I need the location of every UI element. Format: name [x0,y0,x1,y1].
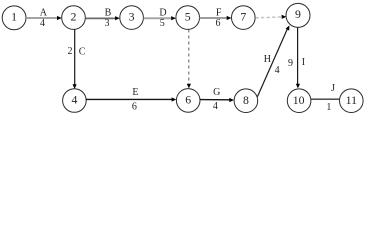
svg-text:8: 8 [243,93,249,107]
svg-text:9: 9 [295,7,301,21]
node 11 [340,89,364,113]
svg-text:2: 2 [71,9,77,23]
node 2 [62,6,86,30]
svg-text:7: 7 [240,9,246,23]
node 3 [120,6,144,30]
svg-text:4: 4 [275,65,280,76]
svg-text:G: G [213,87,220,98]
svg-text:6: 6 [216,18,221,29]
svg-text:F: F [216,8,222,19]
svg-text:11: 11 [346,93,357,107]
svg-text:E: E [132,87,138,98]
wire edge G: 6 to 8 [200,98,234,102]
wire edge F: 5 to 7 [200,16,232,20]
node 8 [234,89,258,113]
node 7 [232,6,256,30]
svg-text:6: 6 [132,101,137,112]
node 1 [2,6,26,30]
svg-text:4: 4 [40,18,45,29]
svg-text:3: 3 [129,9,135,23]
svg-text:6: 6 [185,93,191,107]
svg-text:J: J [331,83,335,94]
svg-text:9: 9 [288,58,293,69]
svg-text:10: 10 [293,93,305,107]
svg-text:D: D [159,8,166,19]
svg-text:A: A [40,8,48,19]
svg-text:I: I [302,57,305,68]
svg-text:4: 4 [213,101,218,112]
svg-text:5: 5 [160,18,165,29]
wire dummy edge: 7 to 9 dashed [255,15,286,19]
svg-text:H: H [264,54,271,65]
svg-text:1: 1 [11,10,17,24]
node 6 [176,89,200,113]
node 9 [286,3,310,27]
wire edge J: 10 to 11 [311,98,340,100]
svg-text:C: C [79,46,86,57]
node 10 [287,89,311,113]
svg-text:5: 5 [185,9,191,23]
node 4 [63,89,87,113]
wire edge H: 8 to 9 diagonal [257,25,289,96]
wire edge I: 9 to 10 vertical [296,28,300,89]
wire dummy edge: 5 to 6 dashed vertical [187,30,191,89]
svg-text:4: 4 [71,93,77,107]
wire edge A: 1 to 2 [26,16,62,20]
node 5 [176,6,200,30]
wire edge B: 2 to 3 [85,16,119,20]
wire edge D: 3 to 5 [144,16,176,20]
wire edge C: 2 to 4 vertical [73,29,77,89]
svg-text:2: 2 [68,46,73,57]
svg-text:B: B [105,8,112,19]
wire edge E: 4 to 6 [86,97,177,101]
svg-text:1: 1 [326,102,331,113]
svg-text:3: 3 [105,18,110,29]
